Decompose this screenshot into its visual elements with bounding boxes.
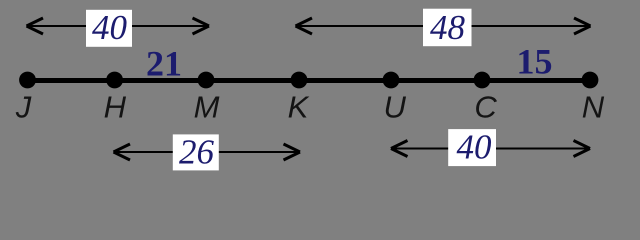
measure box 48 (top) [423,9,472,47]
point J [19,72,36,89]
svg-text:15: 15 [517,42,553,82]
top arrow J-M left head [27,18,44,34]
bottom arrow U-N right head [574,141,591,157]
svg-text:N: N [582,90,605,125]
measure box 26 (bottom) [173,134,219,170]
top arrow J-M right head [193,18,210,34]
measure box 40 (bottom) [448,129,496,166]
top arrow K-N left head [296,18,313,34]
svg-text:J: J [15,90,32,125]
svg-text:40: 40 [92,8,128,47]
bottom arrow H-K shaft [114,151,301,153]
top arrow J-M shaft [27,25,210,27]
bottom arrow U-N shaft [391,148,590,150]
point K [291,72,308,89]
svg-text:48: 48 [430,8,466,47]
point N [582,72,599,89]
bottom arrow H-K right head [284,144,301,160]
measure box 40 (top) [86,10,132,47]
segment line J to N [28,78,591,83]
svg-text:U: U [384,90,407,125]
svg-text:C: C [474,90,497,125]
point C [474,72,491,89]
svg-text:K: K [288,90,310,125]
top arrow K-N shaft [296,25,591,27]
point M [198,72,215,89]
svg-text:40: 40 [457,128,493,167]
svg-text:H: H [104,90,127,125]
point H [106,72,123,89]
point U [383,72,400,89]
svg-text:26: 26 [179,133,215,172]
svg-text:21: 21 [146,44,182,84]
bottom arrow U-N left head [391,141,408,157]
bottom arrow H-K left head [114,144,131,160]
svg-text:M: M [194,90,220,125]
top arrow K-N right head [574,18,591,34]
